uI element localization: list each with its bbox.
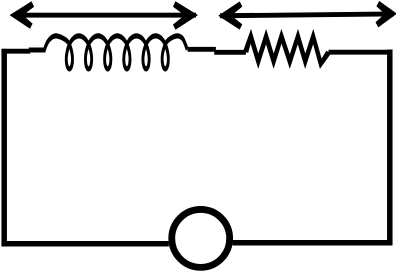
arrow A1 (double-headed, over inductor) — [10, 1, 198, 30]
wire (resistor to top-right corner) — [329, 50, 393, 55]
wire (bottom-right and right side of loop) — [233, 50, 390, 243]
wire (between inductor and resistor) — [214, 50, 246, 55]
wire (left side and bottom-left of loop) — [4, 49, 169, 244]
wire (inductor right stub) — [188, 47, 216, 52]
source V1 (circle) — [172, 209, 230, 267]
inductor L1 (coil) — [43, 33, 188, 71]
wire (inductor left stub) — [29, 48, 46, 53]
resistor R1 (zigzag) — [243, 29, 331, 69]
wire (left corner segment, top-left) — [2, 49, 31, 54]
arrow A2 (double-headed, over resistor) — [218, 1, 396, 30]
